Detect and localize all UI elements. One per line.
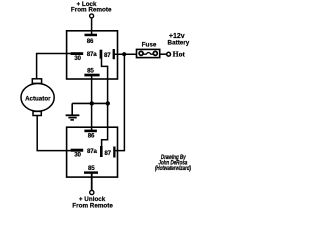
wire +12v node down to K2 pin 87 — [116, 54, 125, 150]
relay K2 box — [67, 127, 118, 177]
wire K1 30 to actuator top — [37, 54, 71, 80]
svg-text:30: 30 — [74, 151, 81, 158]
wire K2 pin 85 to Unlock terminal — [91, 174, 93, 191]
relay K2 pin 30 bar — [71, 149, 84, 152]
ground wire from node A — [72, 102, 108, 104]
fuse F1 left cap — [139, 51, 143, 55]
svg-text:86: 86 — [88, 133, 95, 140]
terminal circle Lock input — [90, 14, 94, 18]
junction node B dot — [106, 101, 110, 105]
relay K1 pin 85 bar — [84, 74, 99, 77]
svg-text:Hot: Hot — [173, 50, 186, 59]
svg-text:85: 85 — [88, 165, 95, 172]
svg-text:Battery: Battery — [168, 40, 190, 47]
actuator top tab — [32, 79, 41, 84]
svg-text:87a: 87a — [87, 148, 97, 155]
relay K1 box — [67, 31, 118, 79]
svg-text:87: 87 — [104, 52, 111, 59]
junction node A dot — [90, 101, 94, 105]
svg-text:(Hotwaterwizard): (Hotwaterwizard) — [155, 165, 191, 172]
terminal circle Unlock — [90, 190, 94, 194]
svg-text:From Remote: From Remote — [71, 7, 112, 14]
svg-text:87: 87 — [104, 150, 111, 157]
fuse F1 body — [137, 49, 160, 57]
ground symbol — [66, 103, 80, 120]
wire K1 87a jog to node B — [102, 59, 108, 104]
fuse F1 element wave — [143, 53, 153, 55]
actuator bottom tab — [33, 111, 41, 115]
relay K1 pin 87a bar — [100, 50, 103, 59]
relay K2 pin 87a bar — [100, 146, 103, 157]
relay K1 pin 86 bar — [85, 34, 98, 37]
fuse F1 right cap — [153, 51, 157, 55]
relay K2 pin 87 bar — [113, 147, 115, 158]
wire actuator bottom to K2 pin 30 — [37, 116, 70, 151]
wire from Lock terminal to relay K1 pin 86 — [91, 18, 93, 35]
wire K1 pin 87 to +12v node — [115, 53, 136, 55]
svg-text:30: 30 — [74, 55, 81, 62]
wire node B to K2 pin 87a — [102, 103, 108, 146]
relay K1 pin 87 bar — [113, 49, 115, 59]
wire node A to K2 pin 86 — [91, 103, 93, 130]
relay K2 pin 85 bar — [84, 171, 98, 173]
svg-text:85: 85 — [87, 67, 94, 74]
svg-text:86: 86 — [87, 38, 94, 45]
relay K2 pin 86 bar — [84, 130, 97, 133]
svg-text:Fuse: Fuse — [142, 42, 157, 49]
relay K1 pin 30 bar — [71, 52, 84, 55]
junction dot at +12v node — [122, 52, 126, 56]
wire K1 85 to ground node A — [91, 76, 93, 103]
actuator M1 body — [21, 84, 54, 112]
svg-text:From Remote: From Remote — [72, 203, 113, 210]
battery terminal circle — [167, 52, 171, 56]
wire fuse to battery terminal — [160, 53, 166, 55]
svg-text:87a: 87a — [87, 51, 97, 58]
svg-text:Actuator: Actuator — [25, 95, 51, 102]
